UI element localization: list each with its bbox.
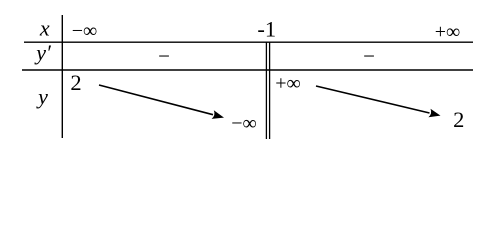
wire: arrow 2 decreasing right interval bbox=[316, 86, 441, 117]
wire: double vertical line at x=-1 (left) bbox=[265, 42, 267, 139]
svg-text:−: − bbox=[363, 44, 375, 68]
svg-text:2: 2 bbox=[70, 70, 81, 95]
wire: double vertical line at x=-1 (right) bbox=[269, 42, 271, 139]
svg-text:2: 2 bbox=[453, 107, 464, 132]
svg-text:+∞: +∞ bbox=[275, 73, 301, 95]
wire: horizontal rule under y' row bbox=[22, 69, 473, 71]
wire: arrow 1 decreasing left interval bbox=[99, 85, 224, 119]
svg-text:−∞: −∞ bbox=[231, 113, 257, 135]
svg-text:−: − bbox=[158, 44, 170, 68]
svg-text:y′: y′ bbox=[34, 40, 52, 65]
wire: horizontal rule under x row bbox=[24, 41, 473, 43]
svg-text:−∞: −∞ bbox=[72, 20, 98, 42]
svg-text:x: x bbox=[39, 15, 50, 40]
svg-text:+∞: +∞ bbox=[435, 21, 461, 43]
wire: vertical header separator bbox=[61, 15, 63, 138]
svg-text:y: y bbox=[36, 84, 48, 109]
svg-text:-1: -1 bbox=[257, 17, 276, 42]
